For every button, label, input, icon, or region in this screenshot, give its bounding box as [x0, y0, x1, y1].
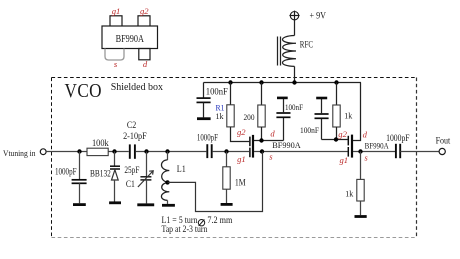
svg-text:2-10pF: 2-10pF — [123, 131, 147, 141]
svg-text:1000pF: 1000pF — [386, 133, 410, 143]
svg-text:+ 9V: + 9V — [310, 11, 327, 21]
svg-text:100nF: 100nF — [300, 125, 319, 135]
svg-text:Fout: Fout — [436, 135, 451, 145]
svg-text:Vtuning in: Vtuning in — [3, 148, 36, 158]
svg-text:1k: 1k — [344, 111, 353, 121]
svg-text:100k: 100k — [92, 138, 109, 148]
svg-text:1000pF: 1000pF — [55, 166, 77, 176]
svg-text:BF990A: BF990A — [272, 141, 301, 150]
svg-text:1k: 1k — [345, 188, 354, 198]
svg-text:C2: C2 — [127, 120, 136, 130]
svg-text:d: d — [363, 130, 368, 140]
svg-text:g1: g1 — [340, 155, 349, 165]
svg-text:g2: g2 — [338, 129, 347, 139]
svg-text:1000pF: 1000pF — [197, 132, 218, 142]
svg-text:200: 200 — [244, 112, 255, 122]
svg-text:g2: g2 — [237, 127, 246, 137]
svg-text:d: d — [143, 59, 148, 69]
svg-text:g1: g1 — [237, 154, 246, 164]
svg-text:BF990A: BF990A — [116, 33, 144, 45]
svg-text:Tap at 2-3 turn: Tap at 2-3 turn — [162, 225, 208, 235]
svg-text:100nF: 100nF — [285, 102, 303, 112]
svg-text:25pF: 25pF — [124, 165, 139, 175]
svg-text:1M: 1M — [235, 178, 246, 188]
svg-text:7.2 mm: 7.2 mm — [207, 216, 233, 226]
svg-text:RFC: RFC — [300, 39, 313, 49]
svg-text:100nF: 100nF — [206, 86, 228, 96]
svg-text:VCO: VCO — [65, 80, 103, 102]
svg-text:d: d — [270, 129, 275, 139]
svg-text:BF990A: BF990A — [365, 142, 389, 151]
svg-text:g1: g1 — [112, 6, 121, 16]
svg-text:1k: 1k — [216, 111, 225, 121]
svg-text:C1: C1 — [126, 179, 135, 189]
svg-text:BB132: BB132 — [90, 169, 111, 179]
svg-text:g2: g2 — [140, 6, 149, 16]
svg-text:Shielded box: Shielded box — [111, 82, 164, 93]
svg-text:L1: L1 — [177, 164, 186, 174]
